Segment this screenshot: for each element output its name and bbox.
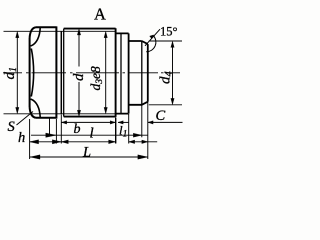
svg-text:d: d xyxy=(71,73,87,81)
svg-text:A: A xyxy=(94,5,106,24)
chamfer start edge line xyxy=(141,41,143,105)
svg-text:15°: 15° xyxy=(160,24,178,38)
svg-text:L: L xyxy=(82,145,91,161)
washer face under head xyxy=(60,31,62,114)
collar section xyxy=(116,33,128,113)
thread minor lines + d1 extension lines crossing head xyxy=(4,31,116,114)
dimension d4 xyxy=(149,41,182,105)
svg-text:S: S xyxy=(8,119,16,135)
extension lines (vertical) xyxy=(30,102,148,159)
long dimension row l with arrows at head face and chamfer start xyxy=(31,133,148,137)
collar mid line xyxy=(120,33,122,113)
dimension d xyxy=(77,29,80,117)
dimension d3e8 xyxy=(104,32,107,114)
thread boundary line xyxy=(63,29,65,117)
centerline (axis) xyxy=(3,72,180,74)
dimension h and l and l1 row xyxy=(30,140,158,144)
svg-text:C: C xyxy=(156,108,166,124)
15 degree chamfer angle dimension xyxy=(145,29,160,52)
svg-text:h: h xyxy=(18,130,25,146)
hex head chamfer arcs xyxy=(31,28,41,117)
thread major diameter lines xyxy=(64,28,116,117)
dimension d1 xyxy=(16,32,19,114)
hex head outline xyxy=(30,26,57,118)
svg-text:l: l xyxy=(90,126,94,142)
small arrow next to l1 area xyxy=(118,121,128,124)
dimension L xyxy=(30,155,148,159)
dimension C xyxy=(148,121,183,124)
svg-text:d3e8: d3e8 xyxy=(88,66,105,90)
end cylinder with 15deg chamfer xyxy=(129,41,148,105)
dimension b xyxy=(61,121,115,124)
thread end extension (thicker) xyxy=(115,118,117,144)
